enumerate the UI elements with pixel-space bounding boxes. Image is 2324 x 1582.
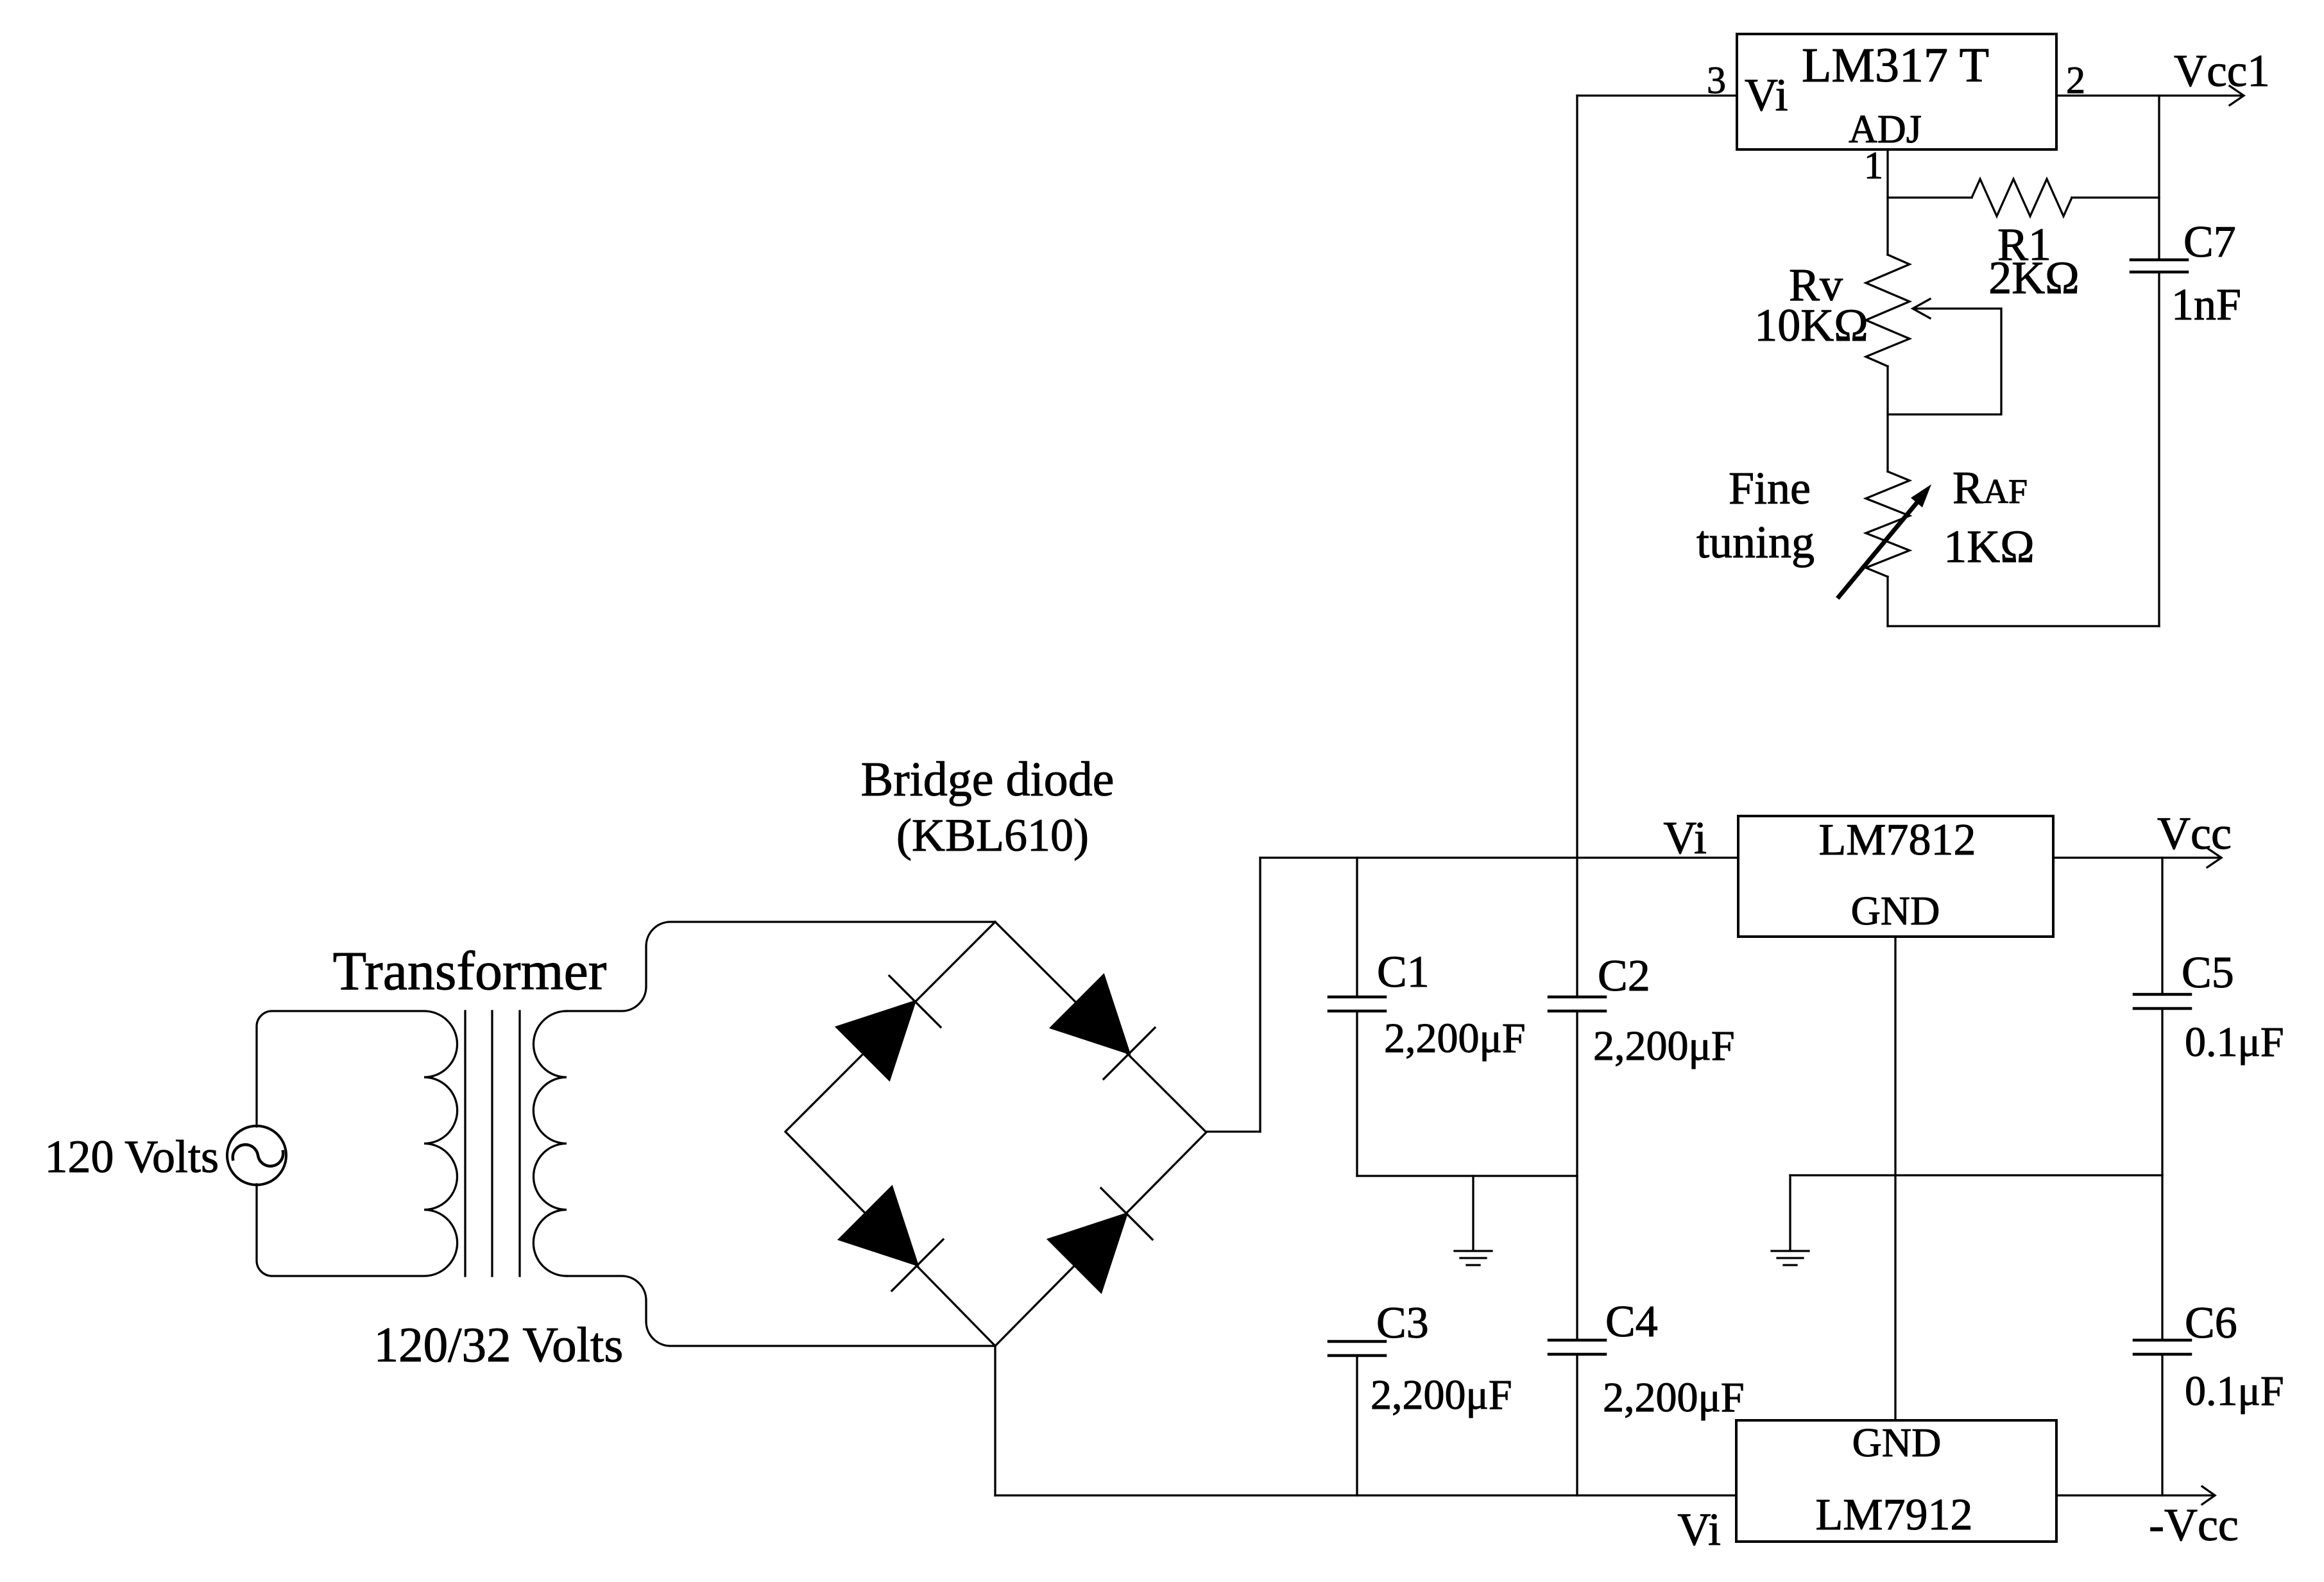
svg-text:2,200μF: 2,200μF xyxy=(1603,1374,1745,1421)
wire ground stub mid xyxy=(1472,1176,1474,1250)
wire ADJ pin down xyxy=(1886,149,1888,255)
potentiometer Rv xyxy=(1866,255,1910,366)
svg-text:C7: C7 xyxy=(2183,217,2236,267)
svg-text:LM7912: LM7912 xyxy=(1816,1490,1973,1540)
capacitor C5 xyxy=(2161,858,2163,994)
svg-text:C6: C6 xyxy=(2185,1298,2237,1348)
svg-text:(KBL610): (KBL610) xyxy=(896,810,1089,861)
svg-text:Transformer: Transformer xyxy=(333,940,607,1001)
diode D4 bottom-right xyxy=(1048,1214,1127,1292)
wire bridge output vertical xyxy=(1259,858,1261,1132)
AC source 120 Volts xyxy=(227,1126,286,1185)
wire pin2 output to Vcc1 arrow xyxy=(2056,94,2243,96)
svg-text:C2: C2 xyxy=(1598,951,1650,1001)
ground symbol left xyxy=(1455,1250,1492,1252)
svg-text:ADJ: ADJ xyxy=(1849,108,1922,151)
diode D3 bottom-left xyxy=(839,1187,918,1265)
svg-text:C3: C3 xyxy=(1376,1298,1429,1348)
diode D2 top-right xyxy=(1051,975,1129,1053)
svg-text:1KΩ: 1KΩ xyxy=(1944,521,2035,572)
svg-text:1nF: 1nF xyxy=(2171,280,2241,330)
capacitor C6 xyxy=(2161,1175,2163,1340)
svg-text:Vcc1: Vcc1 xyxy=(2174,46,2270,96)
node Vcc arrowhead xyxy=(2207,848,2221,867)
resistor R1 xyxy=(1972,179,2072,216)
capacitor C2 xyxy=(1549,997,1605,1011)
svg-text:2,200μF: 2,200μF xyxy=(1593,1023,1735,1069)
ground symbol right xyxy=(1772,1250,1809,1252)
svg-text:C5: C5 xyxy=(2182,948,2234,998)
svg-text:tuning: tuning xyxy=(1696,516,1815,568)
LM7812 regulator U2 box xyxy=(1738,816,2053,937)
svg-text:3: 3 xyxy=(1707,59,1726,101)
svg-text:1: 1 xyxy=(1864,144,1883,187)
wire ground stub right xyxy=(1789,1175,1791,1250)
arrow through RAF xyxy=(1839,502,1917,597)
bridge rectifier diamond xyxy=(785,922,1206,1346)
LM7912 regulator U3 box xyxy=(1736,1420,2056,1542)
wire secondary top xyxy=(567,922,995,1011)
wire bridge right corner lead xyxy=(1206,1130,1260,1132)
svg-text:120/32 Volts: 120/32 Volts xyxy=(374,1317,624,1372)
svg-text:120 Volts: 120 Volts xyxy=(45,1131,219,1182)
capacitor C7 xyxy=(2131,260,2187,272)
svg-text:2,200μF: 2,200μF xyxy=(1384,1015,1526,1062)
svg-text:-Vcc: -Vcc xyxy=(2149,1499,2239,1551)
wire pin3 input horizontal xyxy=(1577,94,1737,96)
wire GND interconnect vertical xyxy=(1894,937,1896,1420)
rheostat RAF xyxy=(1866,472,1910,577)
wire main rail from bridge to LM7812 xyxy=(1260,856,1738,858)
wire bridge bottom corner down xyxy=(994,1346,996,1495)
wire ground link horizontal xyxy=(1790,1174,2162,1176)
wire C1-C2 bottom link xyxy=(1357,1175,1577,1177)
capacitor C1 xyxy=(1356,858,1358,997)
transformer core xyxy=(464,1011,466,1276)
svg-text:10KΩ: 10KΩ xyxy=(1754,300,1868,351)
wire secondary bottom xyxy=(567,1276,995,1346)
svg-text:GND: GND xyxy=(1852,1420,1942,1465)
wire tall input vertical to C2 xyxy=(1576,96,1578,997)
wire C7 bottom down to loop bottom xyxy=(2158,272,2160,626)
svg-text:Vi: Vi xyxy=(1663,812,1707,863)
wire Rv bottom to RAF xyxy=(1886,366,1888,472)
svg-text:LM7812: LM7812 xyxy=(1819,815,1976,865)
wire R1 right lead xyxy=(2072,196,2159,198)
diode D1 top-left xyxy=(837,1001,915,1080)
wire primary loop with winding xyxy=(257,1011,457,1276)
svg-text:Vcc: Vcc xyxy=(2157,808,2232,859)
svg-text:C1: C1 xyxy=(1377,948,1430,997)
svg-text:2KΩ: 2KΩ xyxy=(1988,252,2080,303)
svg-text:Vi: Vi xyxy=(1745,69,1788,121)
svg-text:LM317 T: LM317 T xyxy=(1802,38,1989,92)
node -Vcc arrowhead xyxy=(2202,1486,2215,1504)
wire -Vcc output xyxy=(2056,1494,2214,1496)
svg-text:C4: C4 xyxy=(1605,1297,1658,1347)
wire junction down from pin2 node xyxy=(2158,96,2160,260)
wire loop bottom horizontal xyxy=(1888,625,2159,627)
wiper arrow of Rv xyxy=(1913,299,1930,318)
wire RAF bottom xyxy=(1886,577,1888,626)
svg-text:Fine: Fine xyxy=(1729,463,1811,514)
wire R1 left lead xyxy=(1888,196,1972,198)
svg-text:0.1μF: 0.1μF xyxy=(2185,1019,2284,1066)
svg-text:0.1μF: 0.1μF xyxy=(2185,1368,2284,1415)
svg-text:Bridge diode: Bridge diode xyxy=(861,753,1115,806)
svg-text:GND: GND xyxy=(1851,888,1940,933)
node Vcc1 arrowhead xyxy=(2230,86,2244,105)
wire bottom rail xyxy=(995,1494,1736,1496)
svg-text:2: 2 xyxy=(2066,59,2085,101)
capacitor C3 xyxy=(1329,1341,1385,1356)
capacitor C4 xyxy=(1549,1340,1605,1354)
svg-text:2,200μF: 2,200μF xyxy=(1371,1372,1512,1418)
transformer secondary winding xyxy=(533,1011,567,1276)
svg-text:Vi: Vi xyxy=(1677,1504,1721,1555)
LM317 regulator U1 box xyxy=(1737,34,2056,149)
wire Vcc output xyxy=(2053,856,2220,858)
